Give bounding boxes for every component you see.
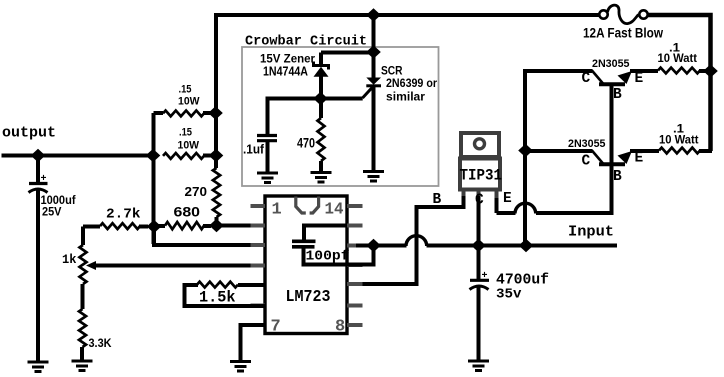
op-amp U1 LM723 box xyxy=(265,196,347,334)
resistor R4 .15 10W (top) xyxy=(154,111,164,115)
ground C2 xyxy=(257,173,278,183)
svg-text:E: E xyxy=(503,191,512,207)
svg-text:2.7k: 2.7k xyxy=(106,207,141,223)
wire TIP31 collector to bus xyxy=(477,196,481,246)
wire hop bus over base wire xyxy=(406,236,427,246)
wire hop E over rail xyxy=(515,203,536,213)
potentiometer R9 1k xyxy=(81,227,85,246)
transistor Q2 2N3055 xyxy=(525,149,592,153)
ground R3 xyxy=(311,173,332,183)
wire crowbar gate bus xyxy=(268,99,363,135)
node J3 top rail / SCR xyxy=(366,8,381,22)
wire to pin 2 xyxy=(217,224,255,228)
svg-text:470: 470 xyxy=(297,135,315,151)
node J2 collector rail / Q2 collector xyxy=(518,144,533,158)
svg-text:2N3055: 2N3055 xyxy=(592,58,630,70)
capacitor C3 100pf xyxy=(304,226,347,241)
svg-text:.1uf: .1uf xyxy=(243,143,265,157)
pin E of TIP31 xyxy=(495,191,499,198)
diode D1 15V zener 1N4744A xyxy=(319,53,323,66)
node J14 collector rail / bus xyxy=(519,239,534,253)
wire main rail x216 xyxy=(214,15,218,168)
svg-text:LM723: LM723 xyxy=(286,287,331,306)
wire left sense rail xyxy=(152,113,156,244)
node J13 TIP31 collector / 4700uf xyxy=(471,239,486,253)
svg-text:.15: .15 xyxy=(179,84,192,96)
wire junction to pin 3 xyxy=(154,227,254,246)
svg-text:C: C xyxy=(582,71,591,87)
resistor R10 3.3K xyxy=(79,309,86,347)
node J9 xyxy=(209,149,224,163)
wire input bus xyxy=(356,244,407,248)
capacitor C2 .1uf xyxy=(257,134,277,137)
resistor R8 2.7k xyxy=(83,225,100,229)
wire zener to SCR anode xyxy=(321,51,374,55)
wire TIP31 base to LM723 xyxy=(352,196,464,284)
svg-text:1000uf: 1000uf xyxy=(41,195,76,207)
node J10 270/680/pin2 xyxy=(209,219,224,233)
pin stubs U1 right xyxy=(347,204,363,208)
svg-text:E: E xyxy=(635,151,644,167)
node J6 output / 1000uf xyxy=(31,149,46,163)
resistor R6 270 xyxy=(213,168,220,217)
wiper of R9 xyxy=(86,261,96,270)
svg-text:680: 680 xyxy=(174,204,201,220)
fuse F1 12A xyxy=(599,10,607,18)
svg-text:1.5k: 1.5k xyxy=(199,289,236,307)
svg-text:12A Fast Blow: 12A Fast Blow xyxy=(583,26,663,41)
svg-text:C: C xyxy=(582,154,591,170)
svg-text:100pf: 100pf xyxy=(306,249,350,265)
wire top rail xyxy=(216,15,601,17)
resistor R11 1.5k xyxy=(238,283,265,287)
svg-text:+: + xyxy=(482,271,488,282)
svg-text:.15: .15 xyxy=(179,127,192,139)
thyristor Q3 SCR 2N6399 xyxy=(366,78,381,85)
capacitor C4 4700uf 35v xyxy=(477,246,481,280)
pin B of TIP31 xyxy=(462,191,466,197)
svg-text:3.3K: 3.3K xyxy=(89,338,113,350)
svg-text:Input: Input xyxy=(568,224,614,241)
ground pin 7 xyxy=(230,362,251,372)
svg-text:similar: similar xyxy=(386,90,425,104)
svg-text:8: 8 xyxy=(335,318,345,337)
pin stubs U1 left xyxy=(251,204,266,208)
svg-text:7: 7 xyxy=(271,318,281,337)
svg-text:1: 1 xyxy=(272,201,282,220)
node J8 xyxy=(208,106,223,120)
node J7 output / .15 resistors xyxy=(146,149,161,163)
svg-text:10 Watt: 10 Watt xyxy=(659,135,699,147)
gate of SCR xyxy=(363,86,375,99)
svg-text:25V: 25V xyxy=(42,207,62,219)
transistor U2 TIP31 package xyxy=(461,133,499,157)
node J11 2.7k/680 junction xyxy=(147,220,162,234)
resistor R2 .1 10W (bottom) xyxy=(630,149,659,153)
ground SCR cathode xyxy=(363,172,384,182)
resistor R5 .15 10W (bottom) xyxy=(163,153,204,159)
svg-text:output: output xyxy=(2,125,56,142)
svg-text:E: E xyxy=(635,71,644,87)
wire output lead xyxy=(2,154,156,158)
node J4 zener / SCR anode xyxy=(366,45,381,59)
svg-text:2N6399 or: 2N6399 or xyxy=(386,76,437,90)
svg-text:2N3055: 2N3055 xyxy=(568,138,606,150)
ground C4 xyxy=(468,361,489,371)
svg-text:B: B xyxy=(613,169,622,185)
capacitor C1 1000uf 25V xyxy=(36,156,40,183)
wire pin 7 to ground xyxy=(241,325,266,360)
svg-text:35v: 35v xyxy=(496,287,522,303)
resistor R3 470 xyxy=(319,99,323,119)
transistor Q1 2N3055 xyxy=(523,69,592,73)
svg-text:1k: 1k xyxy=(62,252,77,267)
node J12 100pf tap xyxy=(366,239,381,253)
svg-text:10W: 10W xyxy=(178,140,200,152)
ground C1 xyxy=(28,362,49,372)
svg-text:+: + xyxy=(41,174,47,185)
svg-text:15V Zener: 15V Zener xyxy=(260,52,315,66)
svg-text:14: 14 xyxy=(325,201,344,220)
svg-text:10 Watt: 10 Watt xyxy=(658,53,698,65)
crowbar circuit box xyxy=(242,47,439,186)
svg-text:Crowbar Circuit: Crowbar Circuit xyxy=(245,34,367,50)
notch of U1 xyxy=(296,197,319,214)
resistor R7 680 xyxy=(154,224,165,228)
wire base line Q1/Q2 to TIP31 emitter xyxy=(610,84,614,215)
wire SCR anode drop xyxy=(372,13,376,78)
svg-text:TIP31: TIP31 xyxy=(460,167,503,185)
svg-text:10W: 10W xyxy=(178,96,200,108)
svg-text:270: 270 xyxy=(185,184,208,199)
node J1 top-right rail junction xyxy=(703,64,718,78)
pin C of TIP31 xyxy=(477,191,481,200)
node J5 gate / 470 / zener xyxy=(313,92,328,106)
resistor R1 .1 10W (top) xyxy=(630,69,658,73)
svg-text:B: B xyxy=(613,87,622,103)
wire collector rail xyxy=(523,69,527,246)
svg-text:1N4744A: 1N4744A xyxy=(263,65,308,79)
ground R10 xyxy=(72,361,93,371)
